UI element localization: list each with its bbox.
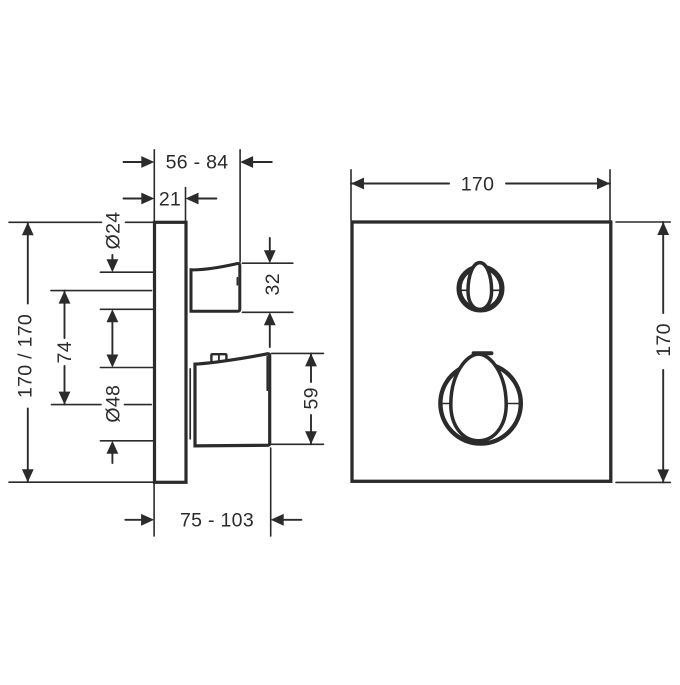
svg-text:59: 59 (301, 387, 323, 409)
dim 75-103 : extension lines (153, 484, 155, 537)
big knob circle (440, 363, 520, 443)
svg-text:56 - 84: 56 - 84 (166, 152, 229, 174)
dim 75-103 : left arrow + tail (125, 519, 143, 521)
svg-text:75 - 103: 75 - 103 (180, 510, 254, 532)
dim 56-84 : left arrow + tail (124, 161, 144, 163)
extension line from plate top-left to far left (170/170 top) with gap for Ø24 text (9, 221, 102, 223)
dim 59 : vertical line with arrows inside and text gap (310, 353, 312, 382)
dim 21 : left arrow + tail (124, 198, 144, 200)
dim Ø24/Ø48 shared line with outward arrows (111, 320, 113, 356)
svg-text:Ø24: Ø24 (103, 212, 125, 250)
dim 59 : extension lines (272, 352, 324, 354)
dim 32 : arrows outside (269, 238, 271, 250)
front plate square (352, 222, 611, 481)
svg-text:170: 170 (461, 174, 494, 196)
dim 75-103 : right arrow + tail (282, 519, 301, 521)
dim 74 : extension lines (knob centers) (51, 290, 152, 292)
dim Ø48 : bottom line and up arrow (100, 440, 153, 442)
dim 56-84 : right arrow + tail (252, 161, 272, 163)
dim 170 right : line with arrows and text gap (662, 222, 664, 313)
dim 170/170 vertical line with arrows and text gap (27, 222, 29, 303)
dim 170 top : extension lines (350, 170, 352, 220)
lower handle stem (189, 369, 191, 439)
small knob ticks (458, 289, 467, 291)
small knob egg grip (468, 263, 492, 310)
top handle (side view) (191, 263, 240, 311)
dim 74 : vertical line with arrows and text gap (64, 291, 66, 338)
big knob safety button bump (474, 351, 492, 355)
svg-text:32: 32 (262, 273, 284, 295)
svg-text:Ø48: Ø48 (103, 385, 125, 423)
big knob egg grip (451, 354, 506, 441)
svg-text:74: 74 (54, 341, 76, 363)
lower handle (side view) (195, 354, 270, 446)
lower handle rim tick (266, 357, 268, 391)
svg-text:170: 170 (653, 323, 675, 356)
dim 21 : right arrow + tail (197, 198, 217, 200)
dim 170 right : extension lines (616, 221, 670, 223)
dim 32 : extension lines (242, 262, 292, 264)
extension line from plate bottom-left to far left (170/170 bottom) (9, 481, 154, 483)
wall plate (side view) (155, 222, 187, 482)
dim 170 top : line with arrows and text gap (351, 183, 449, 185)
small knob circle (459, 267, 502, 310)
svg-text:170 / 170: 170 / 170 (15, 314, 37, 398)
dim 56-84 : extension lines (153, 150, 155, 221)
top handle rim tick (236, 278, 238, 285)
lower handle safety button (211, 354, 226, 362)
svg-text:21: 21 (159, 189, 181, 211)
big knob ticks (440, 403, 451, 405)
dim Ø24 : arrow down to top line (111, 255, 113, 261)
dim 21 : extension line (185, 188, 187, 222)
